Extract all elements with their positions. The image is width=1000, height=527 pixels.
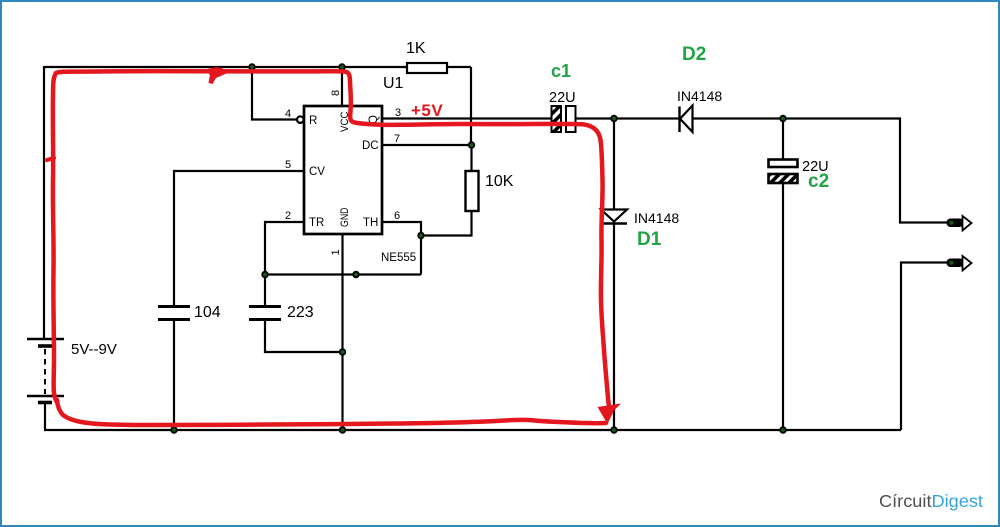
node bottom rail / 104 <box>171 427 177 433</box>
svg-text:c2: c2 <box>808 171 829 192</box>
wire battery bottom lead <box>44 403 46 430</box>
wire pin8 VCC <box>341 67 343 106</box>
svg-text:D2: D2 <box>682 44 706 65</box>
wire 223 bottom lead <box>265 321 343 352</box>
svg-text:2: 2 <box>285 210 291 222</box>
red direction arrow (top, pointing right) <box>207 67 227 84</box>
node TR / 223 <box>262 272 268 278</box>
node top rail / pin8 <box>339 64 345 70</box>
svg-text:5: 5 <box>285 159 291 171</box>
output connector lower <box>947 256 972 271</box>
diode D1 symbol <box>601 210 627 224</box>
node D2 / c2 <box>780 116 786 122</box>
svg-text:TH: TH <box>363 217 378 229</box>
wire c2 top lead <box>782 119 784 161</box>
svg-text:4: 4 <box>285 108 291 120</box>
CircuitDigest logo <box>879 491 983 511</box>
node pin3 / D1 <box>611 116 617 122</box>
wire lower connector to bottom rail <box>901 263 947 431</box>
svg-text:TR: TR <box>309 217 324 229</box>
wire D1 branch vertical <box>613 119 615 431</box>
battery B1 5V--9V <box>27 339 64 403</box>
resistor R 1K body <box>407 63 447 73</box>
svg-text:5V--9V: 5V--9V <box>71 341 117 358</box>
output connector upper <box>947 216 972 231</box>
svg-text:CírcuitDigest: CírcuitDigest <box>879 491 983 511</box>
svg-text:7: 7 <box>394 133 400 145</box>
node bottom rail / c2 <box>780 427 786 433</box>
capacitor c1 22U polarized plates <box>552 106 576 132</box>
capacitor 104 plates <box>158 307 190 320</box>
IC pin name labels <box>309 111 380 229</box>
node bottom rail / GND <box>340 427 346 433</box>
svg-text:22U: 22U <box>549 90 576 106</box>
capacitor 223 plates <box>249 307 281 320</box>
svg-text:3: 3 <box>395 107 401 119</box>
node top rail / pin4 <box>249 64 255 70</box>
wire top rail left segment <box>44 66 407 68</box>
svg-text:GND: GND <box>339 207 351 227</box>
node GND / 223 <box>340 349 346 355</box>
red annotated current path (left+top+through c1+down) <box>53 71 610 412</box>
red direction arrow (bottom, pointing down) <box>598 404 622 425</box>
svg-text:IN4148: IN4148 <box>677 88 722 104</box>
svg-text:104: 104 <box>194 304 221 321</box>
pin4 reset bubble <box>297 116 304 123</box>
capacitor c2 22U polarized plates <box>769 160 798 184</box>
svg-text:IN4148: IN4148 <box>634 210 679 226</box>
wire top rail right segment <box>446 66 471 68</box>
wire 10K bottom lead to TH <box>421 211 472 236</box>
wire 10K top lead <box>470 145 472 171</box>
wire GND pin1 down <box>341 234 343 430</box>
wire DC pin7 and 1K right lead down <box>382 67 471 145</box>
svg-text:R: R <box>309 115 317 127</box>
wire 104 bottom lead <box>173 321 175 430</box>
wire 223 top lead <box>264 275 266 306</box>
wire TR-TH horizontal link <box>265 273 421 275</box>
svg-text:223: 223 <box>287 304 314 321</box>
node TR-TH link <box>353 272 359 278</box>
wire D2 to top-right corner and down to upper connector <box>692 119 947 223</box>
svg-text:U1: U1 <box>383 75 404 92</box>
node TH / 10K <box>418 233 424 239</box>
svg-text:CV: CV <box>309 166 325 178</box>
svg-text:6: 6 <box>394 210 400 222</box>
svg-text:D1: D1 <box>637 229 662 250</box>
op-amp / IC U1 NE555 box <box>304 106 382 234</box>
svg-text:DC: DC <box>362 140 379 152</box>
wire CV pin5 to 104 <box>174 171 304 305</box>
IC pin numbers <box>285 90 401 256</box>
svg-text:+5V: +5V <box>411 101 443 120</box>
wire TH pin6 <box>382 222 421 275</box>
wire left rail <box>43 66 45 339</box>
wire TR pin2 <box>265 222 304 275</box>
svg-text:NE555: NE555 <box>381 252 416 264</box>
resistor 10K body <box>466 171 479 211</box>
wire bottom rail <box>44 429 901 431</box>
red annotated current path (bottom return) <box>57 400 606 425</box>
svg-text:c1: c1 <box>551 61 571 81</box>
node bottom rail / D1 <box>611 427 617 433</box>
diode D2 symbol <box>680 106 693 133</box>
svg-text:8: 8 <box>330 90 342 96</box>
svg-text:1: 1 <box>330 249 342 255</box>
wire c2 bottom lead <box>782 183 784 430</box>
svg-text:10K: 10K <box>485 173 514 190</box>
wire pin3 output to c1 <box>382 117 551 119</box>
node DC / 1K / 10K <box>469 142 475 148</box>
wire pin4 from top rail <box>252 67 296 120</box>
red tick nub on left path <box>47 158 54 160</box>
svg-text:1K: 1K <box>406 40 426 57</box>
wire c1 to D2 <box>576 117 680 119</box>
